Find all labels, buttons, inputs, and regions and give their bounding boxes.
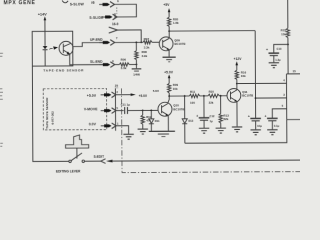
tape-end sensor box bbox=[32, 31, 73, 66]
pin number 5 bbox=[116, 106, 118, 110]
wire to S-EDIT connector bbox=[84, 160, 101, 162]
label 10k bbox=[173, 87, 178, 91]
label 3.9k bbox=[141, 54, 147, 58]
label C10 bbox=[277, 47, 282, 51]
label 0.0V bbox=[89, 122, 97, 126]
text MPX GENE (cut off at top) bbox=[4, 0, 36, 6]
transistor Q11 bbox=[227, 89, 241, 103]
label Q09 bbox=[174, 38, 180, 42]
connector pin 5 bbox=[101, 108, 116, 114]
label R16 bbox=[241, 70, 247, 74]
svg-text:#6: #6 bbox=[91, 1, 95, 5]
connector pin 1 bbox=[101, 123, 116, 129]
label 1.8k bbox=[173, 21, 179, 25]
label 25 bbox=[115, 84, 119, 88]
label 10u bbox=[257, 124, 262, 128]
label R06 bbox=[121, 58, 127, 62]
ground C10 bbox=[269, 63, 279, 68]
label C12 bbox=[210, 114, 215, 118]
resistor R15 bbox=[286, 28, 290, 74]
svg-text:25: 25 bbox=[115, 84, 119, 88]
label R07 bbox=[144, 37, 150, 41]
supply arrow +14V bbox=[44, 16, 47, 31]
resistor R06 bbox=[119, 63, 129, 66]
svg-text:C11 1μ: C11 1μ bbox=[121, 103, 131, 107]
svg-text:+12V: +12V bbox=[234, 57, 243, 61]
light arrow bbox=[49, 46, 58, 49]
svg-text:R06: R06 bbox=[121, 58, 127, 62]
capacitor C11 bbox=[125, 107, 128, 114]
wire pin1 to ground bbox=[116, 126, 129, 134]
ground Q11 bbox=[232, 127, 242, 132]
wire R09 to Q10 collector bbox=[168, 96, 169, 103]
label 1/4W bbox=[133, 72, 140, 76]
label S-EDIT bbox=[94, 155, 105, 159]
pin number 6 bbox=[112, 59, 114, 63]
wire Q10 emitter bbox=[167, 115, 169, 131]
svg-text:S-SLIDE: S-SLIDE bbox=[89, 16, 104, 20]
pin number 6 bbox=[114, 12, 116, 16]
ground Q10 shared bbox=[149, 131, 175, 136]
svg-text:D13: D13 bbox=[188, 119, 193, 123]
wire C11 to junction bbox=[127, 109, 142, 111]
wire S-EDIT to right edge bbox=[113, 159, 301, 162]
crop artifact left 3 bbox=[0, 143, 3, 146]
label 47k bbox=[146, 119, 151, 123]
label 3.3k bbox=[121, 66, 127, 70]
diode D13 bbox=[182, 96, 187, 143]
resistor R11 bbox=[189, 94, 199, 97]
wire top right supply bbox=[287, 0, 289, 28]
wire collector to IC pin4 bbox=[237, 82, 287, 84]
wire S-SLOW loop to S-SLIDE bbox=[114, 4, 136, 17]
svg-text:BC107B: BC107B bbox=[242, 94, 253, 98]
capacitor C14 bbox=[265, 115, 278, 130]
label +5.0V bbox=[87, 94, 97, 98]
wire IC pin5 to C14 bbox=[272, 109, 286, 118]
label 1.3u bbox=[275, 58, 281, 62]
junction dot bbox=[142, 110, 144, 112]
svg-text:R07: R07 bbox=[144, 37, 150, 41]
junction dot bbox=[220, 95, 222, 97]
svg-text:10μ: 10μ bbox=[257, 124, 262, 128]
wire Q09 emitter bbox=[168, 49, 170, 56]
junction dot bbox=[168, 95, 170, 97]
label 6-977-302 (vertical) bbox=[50, 111, 54, 125]
label R05 bbox=[173, 17, 179, 21]
label 0.1u bbox=[274, 124, 280, 128]
wire down right column bbox=[254, 31, 256, 118]
svg-text:S-SLOW: S-SLOW bbox=[70, 2, 85, 6]
transistor Q09 bbox=[159, 37, 173, 51]
junction dot bbox=[140, 41, 142, 43]
tape move sensor dashed box bbox=[43, 89, 107, 130]
label R13 bbox=[224, 113, 230, 117]
label 5.6V bbox=[153, 89, 159, 93]
label 22k bbox=[209, 101, 214, 105]
label Q10 bbox=[173, 104, 179, 108]
svg-text:16-9: 16-9 bbox=[112, 22, 119, 26]
wire +14V to LED bbox=[44, 31, 46, 45]
svg-text:TAPE MOVE SENSOR: TAPE MOVE SENSOR bbox=[45, 97, 49, 129]
junction dot bbox=[287, 43, 289, 45]
svg-text:5.6V: 5.6V bbox=[153, 89, 159, 93]
wire to C10 bbox=[274, 44, 288, 52]
connector 25 body line bbox=[114, 88, 116, 130]
wire R06 to junction bbox=[129, 63, 136, 65]
wire SL-END to R06 bbox=[114, 64, 119, 66]
connector pin S-EDIT (mirrored) bbox=[101, 159, 113, 164]
label R09 bbox=[173, 83, 179, 87]
board boundary line bbox=[122, 88, 301, 173]
ground return bus bbox=[185, 120, 287, 144]
switch S-EDIT contact left bbox=[69, 160, 71, 162]
switch contact right bbox=[82, 160, 84, 162]
svg-text:1μ: 1μ bbox=[210, 119, 214, 123]
photo-transistor Q08 bbox=[59, 41, 73, 55]
label R11 bbox=[190, 90, 196, 94]
capacitor C10 bbox=[266, 48, 279, 63]
svg-text:UP-END: UP-END bbox=[90, 38, 103, 42]
svg-text:V-MOVE: V-MOVE bbox=[84, 107, 98, 111]
label EDITING LEVER bbox=[56, 169, 81, 173]
svg-text:+: + bbox=[196, 114, 198, 118]
svg-text:22k: 22k bbox=[209, 101, 214, 105]
svg-text:R11: R11 bbox=[190, 90, 196, 94]
junction dot bbox=[236, 83, 238, 85]
label BC107B bbox=[173, 107, 184, 111]
wire pin2 to supply arrow bbox=[115, 94, 130, 96]
wire Q11 collector bbox=[236, 84, 238, 90]
crop artifact left 2 bbox=[0, 89, 3, 100]
label D13 bbox=[188, 119, 193, 123]
svg-text:15k: 15k bbox=[281, 32, 286, 36]
label 15 bbox=[292, 69, 296, 73]
label R15 bbox=[281, 28, 287, 32]
label BC107B bbox=[242, 94, 253, 98]
capacitor C13 bbox=[248, 115, 261, 130]
pin number 3 bbox=[283, 93, 285, 97]
wire photo-tr collector to UP-END bbox=[73, 43, 103, 47]
resistor R09 bbox=[167, 83, 170, 96]
label D11 bbox=[155, 119, 160, 123]
wire photo-tr emitter to SL-END bbox=[70, 54, 103, 65]
label 10k bbox=[241, 74, 246, 78]
label 16-9 bbox=[112, 22, 119, 26]
label R10 bbox=[209, 89, 215, 93]
svg-text:SL-END: SL-END bbox=[90, 60, 103, 64]
svg-text:3.3k: 3.3k bbox=[121, 66, 127, 70]
svg-text:100: 100 bbox=[190, 101, 195, 105]
resistor R16 bbox=[235, 70, 238, 83]
svg-text:BC107B: BC107B bbox=[174, 42, 185, 46]
pin number 1 bbox=[117, 122, 119, 126]
off-page chevron 16-9 bbox=[109, 27, 118, 33]
wire arc into S-SLOW label bbox=[62, 0, 68, 2]
svg-text:D11: D11 bbox=[155, 119, 160, 123]
crop artifact left 1 bbox=[0, 53, 3, 56]
label R12 bbox=[146, 115, 152, 119]
capacitor C12 bbox=[196, 96, 209, 128]
ground 0.0V bbox=[123, 134, 133, 139]
diode D11 bbox=[149, 110, 154, 131]
label #6 bbox=[91, 1, 95, 5]
label 15k bbox=[281, 32, 286, 36]
svg-text:S-EDIT: S-EDIT bbox=[94, 155, 105, 159]
wire UP-END to R07 bbox=[114, 41, 143, 43]
svg-text:R10: R10 bbox=[209, 89, 215, 93]
svg-text:MPX GENE: MPX GENE bbox=[4, 0, 36, 6]
label +14V bbox=[38, 13, 47, 17]
pin number 6 bbox=[117, 0, 119, 3]
label S-SLIDE bbox=[89, 16, 104, 20]
wire pin5 to C11 bbox=[115, 110, 123, 112]
label SL-END bbox=[90, 60, 103, 64]
svg-text:+14V: +14V bbox=[38, 13, 47, 17]
svg-text:+: + bbox=[248, 115, 250, 119]
transistor Q10 bbox=[158, 102, 172, 116]
pin number 5 bbox=[282, 104, 284, 108]
label C11 1u bbox=[121, 103, 131, 107]
svg-text:82k: 82k bbox=[224, 117, 229, 121]
svg-text:TAPE-END SENSOR: TAPE-END SENSOR bbox=[43, 68, 84, 72]
junction dot bbox=[150, 109, 152, 111]
svg-text:EDITING LEVER: EDITING LEVER bbox=[56, 169, 81, 173]
label R08 bbox=[141, 50, 147, 54]
svg-text:+: + bbox=[266, 48, 268, 52]
wire Q09 collector bbox=[168, 31, 170, 38]
svg-text:+5.0V: +5.0V bbox=[164, 70, 174, 74]
svg-text:BC107B: BC107B bbox=[173, 107, 184, 111]
supply arrow +5V bbox=[163, 3, 170, 17]
label 100 bbox=[190, 101, 195, 105]
pin number 4 bbox=[283, 78, 285, 82]
editing lever cam bbox=[66, 135, 89, 148]
junction dot bbox=[255, 97, 257, 99]
label S-SLOW bbox=[70, 2, 85, 6]
connector pin S-SLIDE bbox=[102, 14, 117, 20]
svg-text:1.3μ: 1.3μ bbox=[275, 58, 281, 62]
label 1u bbox=[210, 119, 214, 123]
ground R13 bbox=[216, 128, 226, 133]
connector pin S-SLOW bbox=[99, 2, 114, 8]
ground C12 bbox=[199, 128, 209, 133]
ground C14 bbox=[267, 130, 277, 135]
wire sensor common down to switch bbox=[32, 66, 68, 162]
connector pin SL-END bbox=[99, 62, 114, 68]
connector pin UP-END bbox=[99, 40, 114, 46]
svg-text:15: 15 bbox=[292, 69, 296, 73]
wire R07 to Q09 base bbox=[152, 41, 159, 43]
svg-text:+5.0V: +5.0V bbox=[87, 94, 97, 98]
switch lever bbox=[71, 153, 82, 161]
resistor R13 bbox=[219, 96, 223, 128]
pin number 7 bbox=[116, 36, 118, 40]
ground SL-END bbox=[132, 69, 142, 71]
connector pin 2 bbox=[101, 92, 116, 98]
label V-MOVE bbox=[84, 107, 98, 111]
resistor R07 bbox=[143, 41, 152, 44]
wire 16-9 to UP-END line bbox=[117, 30, 141, 43]
label TAPE-END SENSOR bbox=[43, 68, 84, 72]
wire junction to Q10 base bbox=[143, 109, 158, 111]
label 82k bbox=[224, 117, 229, 121]
svg-text:0.1μ: 0.1μ bbox=[274, 124, 280, 128]
label 3.3k bbox=[144, 45, 150, 49]
svg-text:C10: C10 bbox=[277, 47, 282, 51]
wire R09 node to Q11 base bbox=[169, 95, 227, 97]
ground Q09 bbox=[163, 57, 176, 62]
svg-text:3.9k: 3.9k bbox=[141, 54, 147, 58]
svg-text:+5V: +5V bbox=[163, 3, 170, 7]
supply arrow +5.0V bbox=[164, 70, 174, 83]
label TAPE MOVE SENSOR (vertical) bbox=[45, 97, 49, 129]
junction dot bbox=[168, 30, 170, 32]
svg-text:3.3k: 3.3k bbox=[144, 45, 150, 49]
IC box 15 bbox=[287, 74, 303, 120]
resistor R08 bbox=[135, 42, 139, 64]
wire collector node to right bbox=[169, 30, 255, 32]
svg-text:6-977-302: 6-977-302 bbox=[50, 111, 54, 125]
junction dot bbox=[136, 64, 138, 66]
ground R12 bbox=[138, 129, 148, 134]
pin number 2 bbox=[116, 90, 118, 94]
dashed connector mate line bbox=[116, 7, 118, 13]
junction dot bbox=[203, 95, 205, 97]
label UP-END bbox=[90, 38, 103, 42]
wire Q11 emitter bbox=[236, 101, 238, 126]
wire junction to ground bbox=[135, 64, 137, 68]
label BC107B bbox=[174, 42, 185, 46]
resistor R10 bbox=[208, 94, 219, 97]
cam push rod bbox=[76, 148, 78, 158]
supply arrow +12V bbox=[234, 57, 243, 70]
resistor R05 bbox=[167, 17, 170, 31]
ground C13 bbox=[250, 130, 260, 135]
LED D01 bbox=[43, 46, 48, 66]
wire to IC pin3 bbox=[256, 97, 287, 99]
svg-text:0.0V: 0.0V bbox=[89, 122, 97, 126]
svg-text:1.8k: 1.8k bbox=[173, 21, 179, 25]
junction dot bbox=[184, 95, 186, 97]
label Q11 bbox=[242, 90, 248, 94]
svg-text:+: + bbox=[265, 115, 267, 119]
junction dot bbox=[135, 41, 137, 43]
svg-text:C12: C12 bbox=[210, 114, 215, 118]
svg-text:1/4W: 1/4W bbox=[133, 72, 140, 76]
svg-text:+5.0V: +5.0V bbox=[139, 94, 148, 98]
resistor R12 bbox=[141, 110, 144, 128]
svg-text:10k: 10k bbox=[241, 74, 246, 78]
supply arrow +15V bbox=[131, 93, 148, 98]
svg-text:10k: 10k bbox=[173, 87, 178, 91]
